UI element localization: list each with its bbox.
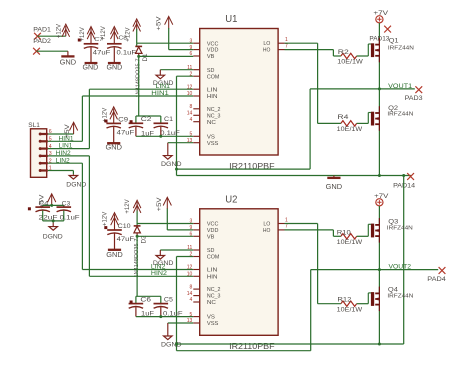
svg-text:PAD2: PAD2 <box>33 38 51 45</box>
wire LIN2 to U2 <box>82 269 193 271</box>
capacitor C8 0.1uF <box>107 36 136 63</box>
wire C4 C3 bottom rail <box>43 219 64 222</box>
U2 pin 1 LO <box>263 217 288 227</box>
svg-text:VSS: VSS <box>207 141 219 147</box>
svg-text:NC: NC <box>207 300 216 306</box>
U1 pin 5 VS <box>190 132 216 141</box>
svg-text:8: 8 <box>190 284 193 290</box>
U1 pin 3 VCC <box>190 38 219 47</box>
node LIN2 label (U2) <box>151 263 166 270</box>
U2 pin 5 VS <box>190 312 216 321</box>
U2 pin 11 SD <box>187 245 214 254</box>
wire COM-VOUT1 rail <box>175 168 310 171</box>
wire C4 C3 top rail <box>43 204 64 207</box>
svg-text:NC_2: NC_2 <box>207 107 221 113</box>
diode D1 1N4148DO35-7 <box>135 46 149 97</box>
op-amp U1 IR2110PBF box <box>200 14 278 155</box>
wire GND rail <box>177 174 412 177</box>
svg-text:COM: COM <box>207 74 220 80</box>
svg-text:VB: VB <box>207 54 215 60</box>
svg-text:+5V: +5V <box>156 197 163 212</box>
svg-text:47uF: 47uF <box>117 236 135 243</box>
ground DGND (SL1) <box>66 174 86 188</box>
pad PAD3 X mark <box>415 86 422 93</box>
wire VS U2 <box>136 315 193 318</box>
svg-text:GND: GND <box>60 58 77 67</box>
wire LO U2 <box>285 223 318 225</box>
U2 pin 2 COM <box>190 252 220 261</box>
svg-text:47uF: 47uF <box>117 130 135 137</box>
svg-text:C6: C6 <box>140 297 151 304</box>
wire VB U1 <box>137 53 193 58</box>
node LIN1 label (SL1) <box>59 143 74 150</box>
wire R12 to Q4 gate <box>368 293 371 304</box>
wire VDD U2 <box>167 209 193 230</box>
svg-text:VSS: VSS <box>207 321 219 327</box>
svg-text:LO: LO <box>263 222 271 228</box>
svg-text:7: 7 <box>285 224 288 230</box>
wire LIN1 to U1 <box>89 88 193 90</box>
ground GND (C10) <box>106 250 123 259</box>
wire HO U1 <box>285 50 334 56</box>
U2 pin 8 NC_2 <box>190 284 221 293</box>
svg-text:10E/1W: 10E/1W <box>337 127 363 133</box>
supply +12V (C10) <box>101 211 118 230</box>
svg-text:COM: COM <box>207 255 220 261</box>
svg-text:PAD1: PAD1 <box>33 26 51 33</box>
ground DGND (U2 SD) <box>153 250 174 267</box>
pad PAD13 X mark <box>384 26 391 33</box>
svg-text:C9: C9 <box>118 117 129 124</box>
svg-text:R2: R2 <box>338 50 350 56</box>
wire D1 to bootstrap caps <box>138 56 140 116</box>
U2 pin 12 LIN <box>187 265 218 274</box>
svg-text:PAD4: PAD4 <box>427 276 446 283</box>
svg-text:9: 9 <box>190 45 193 51</box>
supply +5V (SL1) <box>64 122 78 138</box>
wire R2 to Q1 gate <box>368 44 371 56</box>
svg-text:PAD14: PAD14 <box>393 183 416 190</box>
transistor Q4 IRFZ44N <box>371 287 414 312</box>
wire PAD1 to +12V <box>38 35 66 37</box>
ground GND (C8) <box>107 63 123 72</box>
ground DGND (C4) <box>43 223 63 241</box>
ground GND (rail) <box>326 176 343 192</box>
ground DGND (U2 VSS) <box>161 323 182 348</box>
capacitor C10 47uF <box>104 223 134 250</box>
wire VCC U2 <box>137 224 193 226</box>
svg-text:HO: HO <box>263 48 271 54</box>
U2 pin 9 VDD <box>190 225 219 234</box>
pad PAD4 label <box>427 276 446 283</box>
U2 pin 10 HIN <box>187 272 218 281</box>
supply +5V (U1) <box>155 16 172 31</box>
U1 pin 2 COM <box>190 71 220 80</box>
node HIN2 label (SL1) <box>56 150 72 157</box>
wire HIN1 (SL1 pin5) <box>48 140 83 142</box>
supply +12V (PAD1) <box>55 23 69 38</box>
pad PAD4 X mark <box>439 267 446 274</box>
svg-text:12: 12 <box>187 84 193 90</box>
U2 pin 14 NC_3 <box>187 291 221 300</box>
wire +5V (SL1 pin6) <box>48 133 74 135</box>
wire VOUT2 down-leg <box>310 270 312 351</box>
supply +7V (Q1) <box>373 11 388 23</box>
svg-text:13: 13 <box>187 138 193 144</box>
svg-text:9: 9 <box>190 225 193 231</box>
resistor R2 10E/1W <box>333 50 368 66</box>
svg-text:3: 3 <box>190 219 193 225</box>
svg-text:10E/1W: 10E/1W <box>337 60 363 66</box>
svg-text:6: 6 <box>190 232 193 238</box>
node VOUT2 label <box>389 264 412 271</box>
U2 pin 4 NC <box>190 297 216 306</box>
svg-text:NC_3: NC_3 <box>207 113 221 119</box>
wire COM down-leg <box>176 76 178 175</box>
svg-text:47uF: 47uF <box>93 49 111 56</box>
svg-text:PAD3: PAD3 <box>405 95 424 102</box>
svg-text:R4: R4 <box>337 115 349 121</box>
svg-text:VCC: VCC <box>207 222 219 228</box>
wire D2 to bootstrap caps <box>136 236 138 296</box>
wire COM U1 <box>177 75 194 77</box>
svg-text:HIN1: HIN1 <box>151 90 169 97</box>
svg-text:C5: C5 <box>164 297 174 304</box>
U2 pin 3 VCC <box>190 219 219 228</box>
svg-text:R12: R12 <box>337 298 352 304</box>
resistor R10 10E/1W <box>333 230 368 246</box>
svg-text:VCC: VCC <box>207 41 219 47</box>
svg-text:+7V: +7V <box>373 11 388 17</box>
supply +12V (C8) <box>100 26 118 44</box>
supply +12V (C7) <box>79 27 95 44</box>
svg-text:HIN2: HIN2 <box>56 150 72 157</box>
wire COM U2 <box>177 256 194 258</box>
U1 pin 1 LO <box>263 37 288 47</box>
svg-text:C4: C4 <box>39 200 50 207</box>
connector SL1 pin 3 <box>39 151 52 157</box>
wire LIN2 dropper <box>81 163 83 269</box>
node HIN1 label (U1) <box>151 90 169 97</box>
wire Q4 source to GND link <box>378 305 380 345</box>
ground DGND (U1 SD) <box>153 70 174 87</box>
connector SL1 pin 6 <box>39 129 52 135</box>
pad PAD2 label <box>33 38 51 45</box>
node LIN2 label (SL1) <box>56 157 71 164</box>
svg-text:U2: U2 <box>225 195 237 206</box>
wire HIN2 dropper <box>88 156 90 276</box>
wire VOUT2 <box>311 268 439 271</box>
svg-text:GND: GND <box>107 63 123 72</box>
svg-text:D1: D1 <box>143 53 149 62</box>
U1 value IR2110PBF <box>229 161 275 171</box>
svg-text:0.1uF: 0.1uF <box>117 49 137 56</box>
wire COM2 down-leg <box>176 257 178 351</box>
capacitor C2 1uF <box>129 116 154 137</box>
resistor R12 10E/1W <box>318 298 369 314</box>
svg-text:8: 8 <box>190 104 193 110</box>
svg-text:LO: LO <box>263 41 271 47</box>
wire bootstrap cap rail 2 <box>136 296 161 303</box>
capacitor C5 0.1uF <box>154 297 183 318</box>
svg-text:LIN: LIN <box>207 268 218 274</box>
wire HIN1 riser <box>81 96 83 141</box>
U2 pin 6 VB <box>190 232 215 241</box>
wire VDD U1 <box>169 28 194 50</box>
svg-text:VS: VS <box>207 134 215 140</box>
svg-text:11: 11 <box>187 245 192 251</box>
transistor Q3 IRFZ44N <box>371 218 413 243</box>
pad PAD14 X mark <box>407 173 414 180</box>
ground DGND (U1 VSS) <box>161 143 182 168</box>
wire LO U1 <box>285 42 318 44</box>
svg-text:IRFZ44N: IRFZ44N <box>388 46 414 52</box>
svg-text:10E/1W: 10E/1W <box>337 240 363 246</box>
svg-text:VOUT2: VOUT2 <box>389 264 412 271</box>
U2 value IR2110PBF <box>229 341 275 351</box>
svg-text:VOUT1: VOUT1 <box>388 83 412 90</box>
svg-text:4: 4 <box>190 117 193 123</box>
svg-text:DGND: DGND <box>161 341 182 348</box>
wire COM2-VOUT2 rail <box>177 350 311 352</box>
svg-text:13: 13 <box>187 318 193 324</box>
wire VB U2 <box>136 233 194 238</box>
U1 pin 8 NC_2 <box>190 104 221 113</box>
svg-text:VDD: VDD <box>207 48 219 54</box>
svg-text:DGND: DGND <box>66 181 86 188</box>
diode D2 1N4148DO35-7 <box>134 226 148 278</box>
svg-text:LIN2: LIN2 <box>56 157 71 164</box>
svg-text:+12V: +12V <box>101 211 108 226</box>
ground GND (PAD2) <box>60 51 77 66</box>
svg-text:HIN1: HIN1 <box>59 135 75 142</box>
supply +12V (C9) <box>102 107 118 124</box>
wire +7V to Q1 drain <box>378 23 380 45</box>
supply +7V (Q3) <box>374 194 388 206</box>
svg-text:2: 2 <box>190 71 193 77</box>
wire R4 to Q2 gate <box>368 113 371 124</box>
svg-text:+7V: +7V <box>374 194 388 200</box>
svg-text:1: 1 <box>285 217 288 223</box>
svg-text:HIN: HIN <box>207 94 218 100</box>
svg-text:IRFZ44N: IRFZ44N <box>387 293 413 299</box>
svg-text:NC_2: NC_2 <box>207 287 221 293</box>
svg-text:HIN: HIN <box>207 274 218 280</box>
wire +12V to VCC2 node <box>136 211 138 224</box>
connector SL1 pin 1 <box>39 166 52 172</box>
wire LIN1 riser <box>88 89 90 148</box>
pad PAD13 label <box>369 37 390 43</box>
wire Q1 source to VOUT1 <box>378 56 380 89</box>
svg-text:14: 14 <box>187 291 193 297</box>
capacitor C1 0.1uF <box>154 116 180 137</box>
svg-text:1: 1 <box>285 37 288 43</box>
capacitor C9 47uF <box>105 117 135 144</box>
wire PAD2 to GND <box>37 50 68 52</box>
svg-text:NC_3: NC_3 <box>207 294 221 300</box>
svg-text:+12V: +12V <box>55 23 62 38</box>
svg-text:+12V: +12V <box>125 27 132 42</box>
svg-text:GND: GND <box>105 143 122 152</box>
wire VOUT1 <box>310 87 415 90</box>
resistor R4 10E/1W <box>318 115 369 133</box>
U1 pin 12 LIN <box>187 84 218 93</box>
svg-text:10E/1W: 10E/1W <box>337 307 363 313</box>
capacitor C3 0.1uF <box>57 200 80 221</box>
svg-text:11: 11 <box>187 65 192 71</box>
svg-text:14: 14 <box>187 111 193 117</box>
svg-text:HO: HO <box>263 228 271 234</box>
svg-text:SD: SD <box>207 248 215 254</box>
svg-text:GND: GND <box>83 63 99 72</box>
transistor Q2 IRFZ44N <box>371 106 414 131</box>
svg-text:C2: C2 <box>141 116 152 123</box>
wire LIN2 (SL1 pin2) <box>48 162 83 164</box>
U1 pin 6 VB <box>190 51 215 60</box>
capacitor C4 22uF <box>28 200 58 221</box>
pad PAD2 X mark <box>33 48 40 55</box>
node VOUT1 label <box>388 83 412 90</box>
svg-text:LIN: LIN <box>207 87 218 93</box>
svg-text:GND: GND <box>326 182 343 191</box>
node LIN1 label (U1) <box>156 83 171 90</box>
svg-text:4: 4 <box>190 297 193 303</box>
svg-text:U1: U1 <box>225 14 237 25</box>
svg-text:VS: VS <box>207 315 215 321</box>
svg-text:IRFZ44N: IRFZ44N <box>387 225 413 231</box>
supply +12V (D1) <box>125 19 141 42</box>
wire bootstrap cap rail <box>136 116 161 123</box>
svg-text:12: 12 <box>187 265 193 271</box>
connector SL1 pin 2 <box>39 158 52 164</box>
svg-text:VDD: VDD <box>207 228 219 234</box>
supply +12V (D2) <box>124 199 141 214</box>
svg-text:Q1: Q1 <box>389 39 400 45</box>
svg-text:DGND: DGND <box>43 234 63 241</box>
svg-text:10: 10 <box>187 91 193 97</box>
wire HIN2 to U2 <box>89 275 193 277</box>
wire Q4 drain to VOUT2 <box>378 270 380 294</box>
wire Q2 drain to VOUT1 <box>378 89 380 113</box>
U1 pin 4 NC <box>190 117 216 126</box>
U1 pin 13 VSS <box>187 138 219 147</box>
node HIN2 label (U2) <box>151 270 168 277</box>
svg-text:5: 5 <box>190 132 193 138</box>
wire LO down-leg <box>317 43 319 123</box>
svg-text:C1: C1 <box>164 116 174 123</box>
wire SL1 pin1 to DGND <box>48 171 74 175</box>
wire SD U1 <box>160 69 193 71</box>
svg-text:C3: C3 <box>62 200 71 207</box>
svg-text:IR2110PBF: IR2110PBF <box>229 341 275 351</box>
wire VSS U1 <box>168 142 194 144</box>
wire SD U2 <box>160 249 193 251</box>
capacitor C7 47uF <box>78 37 111 63</box>
wire +7V to Q3 drain <box>378 206 380 225</box>
svg-text:VB: VB <box>207 234 215 240</box>
supply +5V (U2) <box>156 197 171 212</box>
svg-text:+5V: +5V <box>155 16 162 31</box>
connector SL1 box <box>28 122 46 177</box>
wire Q2 source to GND rail <box>378 124 380 175</box>
wire Q3 source to VOUT2 <box>378 236 380 270</box>
U1 pin 9 VDD <box>190 45 219 54</box>
svg-text:SL1: SL1 <box>28 122 40 129</box>
svg-text:HIN2: HIN2 <box>151 270 168 277</box>
wire HO U2 <box>285 230 334 236</box>
svg-text:+12V: +12V <box>100 26 107 41</box>
pad PAD1 label <box>33 26 51 33</box>
U2 pin 7 HO <box>263 224 288 234</box>
U2 pin 13 VSS <box>187 318 219 327</box>
U1 pin 14 NC_3 <box>187 111 221 120</box>
svg-text:3: 3 <box>190 38 193 44</box>
svg-text:SD: SD <box>207 68 215 74</box>
svg-text:R10: R10 <box>337 230 352 236</box>
svg-text:GND: GND <box>106 250 123 259</box>
wire HIN1 to U1 <box>82 95 193 97</box>
wire VCC U1 <box>137 43 194 46</box>
wire GND link rail <box>175 343 404 346</box>
U1 pin 10 HIN <box>187 91 218 100</box>
wire LO2 down-leg <box>317 224 319 304</box>
connector SL1 pin 5 <box>39 137 52 143</box>
node HIN1 label (SL1) <box>59 135 75 142</box>
svg-text:6: 6 <box>190 51 193 57</box>
wire VSS U2 <box>168 322 194 324</box>
connector SL1 pin 4 <box>39 144 52 150</box>
pad PAD14 label <box>393 183 416 190</box>
svg-text:LIN1: LIN1 <box>59 143 74 150</box>
svg-text:2: 2 <box>190 252 193 258</box>
capacitor C6 1uF <box>129 297 154 318</box>
svg-text:NC: NC <box>207 120 216 126</box>
wire LIN1 (SL1 pin4) <box>48 148 90 150</box>
pad PAD1 X mark <box>34 33 41 40</box>
op-amp U2 IR2110PBF box <box>200 195 278 336</box>
U1 pin 7 HO <box>263 43 288 53</box>
wire VS U1 <box>136 135 193 138</box>
svg-text:+12V: +12V <box>124 199 131 214</box>
ground GND (C7) <box>83 63 99 72</box>
ground GND (C9) <box>105 143 122 152</box>
svg-text:10: 10 <box>187 272 193 278</box>
svg-text:IRFZ44N: IRFZ44N <box>387 112 413 118</box>
supply +5V (C4) <box>38 194 55 209</box>
pad PAD3 label <box>405 95 424 102</box>
wire PAD14 down-leg <box>403 176 405 345</box>
transistor Q1 IRFZ44N <box>371 38 414 63</box>
wire +12V to VCC node <box>136 29 138 43</box>
svg-text:DGND: DGND <box>161 161 182 168</box>
svg-text:5: 5 <box>190 312 193 318</box>
svg-text:C10: C10 <box>118 223 132 230</box>
svg-text:7: 7 <box>285 43 288 49</box>
wire HIN2 (SL1 pin3) <box>48 155 90 157</box>
U1 pin 11 SD <box>187 65 214 74</box>
wire R10 to Q3 gate <box>368 224 371 236</box>
wire VOUT1 down-leg <box>309 89 311 169</box>
